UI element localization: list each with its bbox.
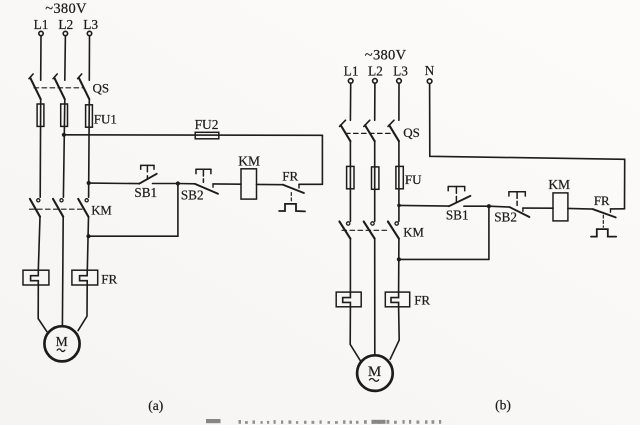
svg-text:KM: KM — [238, 153, 260, 168]
junction dot between SB1 and SB2 (a) — [176, 181, 180, 185]
terminal L2 (a) — [63, 31, 67, 35]
thermal relay FR contact blade (b) — [593, 209, 616, 217]
FR right terminal tick (a) — [298, 184, 300, 188]
latch wire vertical (b) — [488, 206, 490, 259]
svg-text:SB2: SB2 — [494, 210, 517, 225]
QS (b) mechanical coupling dashed link — [346, 132, 395, 134]
FR contact dashed actuator link (b) — [602, 215, 604, 227]
svg-text:KM: KM — [403, 226, 424, 240]
svg-text:N: N — [425, 63, 435, 78]
wire KM coil to FR contact (b) — [568, 207, 593, 210]
svg-text:KM: KM — [548, 177, 570, 192]
pushbutton SB2 (a) NO blade — [195, 184, 218, 194]
FR heater element step L1 (a) — [31, 270, 39, 285]
pushbutton SB1 (a) actuator — [141, 165, 154, 179]
wire L3 tap to SB1 (b) — [399, 204, 449, 207]
svg-text:(a): (a) — [148, 398, 163, 414]
svg-text:SB2: SB2 — [181, 188, 204, 203]
motor M (b) — [357, 355, 393, 391]
motor M (a) — [44, 326, 79, 361]
svg-text:KM: KM — [91, 204, 112, 218]
junction dot between SB1 and SB2 (b) — [487, 204, 491, 208]
wire L3 KM to FR heater (b) — [398, 239, 400, 292]
switch QS (a) pole 3 contact tick — [78, 74, 82, 79]
svg-text:QS: QS — [403, 125, 420, 140]
wire L1 FR to motor (b) — [350, 307, 361, 362]
fuse FU (b) pole 3 — [396, 166, 403, 188]
wire L2 terminal to QS (a) — [64, 36, 67, 80]
svg-text:FU1: FU1 — [94, 112, 117, 127]
switch QS (b) pole 3 contact tick — [388, 120, 394, 126]
wire right rail (a) — [321, 135, 323, 184]
svg-text:FR: FR — [282, 169, 298, 184]
FR heater element step L3 (b) — [391, 292, 399, 307]
wire L3 tap to SB1 (a) — [89, 182, 140, 185]
svg-text:FR: FR — [594, 194, 610, 208]
wire L3 QS to KM contact (a) — [88, 99, 91, 197]
switch QS (a) pole 3 blade — [79, 78, 89, 99]
wire L3 QS to KM contact (b) — [398, 141, 400, 221]
terminal L3 (a) — [87, 31, 91, 35]
svg-text:SB1: SB1 — [446, 208, 469, 223]
wire L2 KM to motor (a) — [61, 217, 64, 327]
svg-text:FU: FU — [405, 172, 422, 187]
svg-text:L1: L1 — [344, 63, 359, 78]
FR heater element step L1 (b) — [343, 292, 351, 307]
contactor KM (b) main contact pole 2 blade — [364, 222, 375, 239]
latch junction dot on L3 (b) — [397, 257, 401, 261]
wire L3 FR to motor (b) — [390, 307, 399, 360]
svg-text:L2: L2 — [58, 17, 73, 32]
pushbutton SB2 (b) NO blade — [510, 207, 530, 217]
svg-text:FR: FR — [414, 293, 430, 308]
fuse FU1 (a) pole 2 — [61, 104, 68, 126]
wire L3 FR to motor (a) — [78, 285, 87, 331]
latch wire horizontal (a) — [89, 235, 178, 237]
fuse FU1 (a) pole 1 — [37, 104, 44, 126]
wire L2 QS to KM contact (b) — [374, 141, 376, 221]
FR heater element step L3 (a) — [80, 270, 88, 285]
switch QS (b) pole 2 contact tick — [364, 120, 370, 126]
fuse FU2 (a) — [195, 132, 219, 139]
svg-text:~380V: ~380V — [45, 1, 87, 17]
switch QS (a) pole 2 blade — [54, 78, 64, 99]
contactor coil KM (b) — [553, 193, 568, 221]
junction dot on L3 control tap (a) — [87, 181, 91, 185]
wire N down and across to FR (b) — [430, 84, 625, 209]
wire junction to SB2 (a) — [178, 183, 195, 185]
FR thermal element bump symbol (a) — [279, 204, 305, 212]
svg-text:L3: L3 — [393, 63, 408, 78]
svg-text:FR: FR — [101, 272, 117, 287]
wire L3 KM to FR heater (a) — [87, 217, 88, 270]
pushbutton SB2 (a) actuator — [196, 169, 211, 182]
svg-text:SB1: SB1 — [134, 185, 157, 200]
fuse FU (b) pole 2 — [372, 167, 379, 189]
fuse FU (b) pole 1 — [347, 166, 354, 188]
contactor KM (b) main contact pole 3 circle — [395, 222, 398, 225]
FR right terminal wire (b) — [611, 208, 625, 210]
wire L1 terminal to QS (b) — [349, 83, 351, 120]
thermal relay FR heater box pole L1 (a) — [23, 270, 49, 285]
wire L2 terminal to QS (b) — [374, 83, 376, 120]
switch QS (a) pole 1 blade — [30, 78, 40, 99]
latch wire horizontal (b) — [399, 258, 489, 260]
wire L3 terminal to QS (b) — [398, 83, 400, 120]
wire KM coil to FR contact (a) — [257, 183, 284, 185]
thermal relay FR heater box pole L3 (b) — [385, 292, 409, 307]
contactor KM (b) main contact pole 3 blade — [388, 222, 399, 239]
terminal L1 (a) — [39, 31, 43, 35]
motor tilde (b) — [370, 379, 379, 382]
contactor KM (b) main contact pole 1 blade — [339, 222, 350, 239]
switch QS (b) pole 3 blade — [389, 125, 399, 141]
pushbutton SB1 (b) NC blade — [449, 196, 470, 206]
pushbutton SB1 (a) NC blade — [139, 174, 157, 184]
wire SB2 to KM coil (b) — [523, 207, 553, 209]
wire L3 terminal to QS (a) — [88, 36, 90, 80]
thermal relay FR contact blade (a) — [283, 185, 304, 193]
QS (a) mechanical coupling dashed link — [34, 87, 84, 89]
switch QS (a) pole 2 contact tick — [53, 74, 57, 79]
junction dot on L3 control tap (b) — [397, 204, 401, 208]
terminal N (b) — [427, 79, 432, 84]
contactor coil KM (a) — [241, 169, 257, 199]
thermal relay FR heater box pole L1 (b) — [336, 292, 361, 307]
SB2 (a) right terminal tick — [212, 184, 214, 187]
terminal L1 (b) — [348, 79, 353, 84]
pushbutton SB1 (b) actuator — [448, 187, 465, 202]
switch QS (b) pole 1 contact tick — [340, 120, 346, 126]
wire L1 FR to motor (a) — [38, 285, 47, 332]
SB2 (b) right terminal tick — [522, 208, 524, 211]
svg-text:L3: L3 — [83, 17, 98, 32]
svg-text:L2: L2 — [368, 63, 383, 78]
switch QS (b) pole 2 blade — [365, 125, 375, 141]
terminal L2 (b) — [373, 79, 378, 84]
contactor KM (b) main contact pole 2 circle — [371, 222, 374, 225]
svg-text:M: M — [56, 334, 68, 349]
wire L1 KM to FR heater (a) — [38, 217, 40, 271]
contactor KM (a) main contact pole 1 circle — [37, 199, 40, 202]
wire L1 terminal to QS (a) — [40, 36, 42, 80]
wire L2 KM to motor (b) — [374, 239, 376, 356]
FR contact dashed actuator link (a) — [290, 193, 292, 202]
junction dot on L2 control tap (a) — [62, 133, 66, 137]
switch QS (b) pole 1 blade — [341, 125, 351, 141]
contactor KM (b) main contact pole 1 circle — [347, 222, 350, 225]
wire junction to SB2 (b) — [489, 205, 510, 208]
svg-text:M: M — [368, 364, 381, 380]
latch junction dot on L3 (a) — [86, 234, 90, 238]
FR right terminal wire (a) — [299, 183, 322, 185]
contactor KM (a) main contact pole 1 blade — [30, 199, 40, 217]
caption fragment at bottom edge (cropped text tops) — [206, 419, 441, 424]
contactor KM (a) main contact pole 3 circle — [85, 199, 88, 202]
FR thermal element bump symbol (b) — [591, 229, 616, 237]
KM (a) mechanical coupling dashed link — [30, 208, 85, 210]
pushbutton SB2 (b) actuator — [509, 192, 525, 206]
wire SB1 to junction (a) — [153, 183, 178, 185]
wire SB2 to KM coil (a) — [213, 183, 241, 185]
svg-text:QS: QS — [93, 80, 110, 95]
wire control top rail with FU2 (a) — [64, 134, 323, 137]
svg-text:~380V: ~380V — [365, 47, 407, 63]
latch wire vertical (a) — [177, 184, 179, 237]
thermal relay FR heater box pole L3 (a) — [72, 270, 98, 285]
svg-text:(b): (b) — [495, 397, 511, 413]
svg-text:FU2: FU2 — [195, 117, 219, 132]
wire L2 QS to KM contact (a) — [63, 99, 64, 197]
wire L1 QS to KM contact (a) — [39, 99, 42, 197]
wire L1 KM to FR heater (b) — [349, 239, 351, 292]
motor tilde (a) — [57, 349, 65, 352]
fuse FU1 (a) pole 3 — [86, 105, 93, 127]
terminal L3 (b) — [397, 79, 402, 84]
FR right terminal tick (b) — [610, 209, 612, 212]
switch QS (a) pole 1 contact tick — [29, 74, 33, 79]
wire L1 QS to KM contact (b) — [349, 141, 351, 221]
wire SB1 to junction (b) — [464, 205, 489, 207]
contactor KM (a) main contact pole 2 circle — [60, 199, 63, 202]
contactor KM (a) main contact pole 2 blade — [53, 199, 63, 217]
svg-text:L1: L1 — [34, 17, 49, 32]
contactor KM (a) main contact pole 3 blade — [78, 199, 88, 217]
KM (b) mechanical coupling dashed link — [342, 229, 389, 231]
